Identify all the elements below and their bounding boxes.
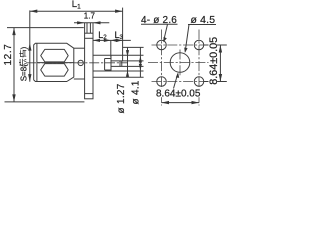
wire dim L3 left extension [110, 40, 112, 57]
label S=8 hex [19, 46, 28, 81]
node mounting hole bottom right [194, 77, 204, 87]
wire dim L2 L3 line [93, 39, 131, 41]
svg-text:ø 1.27: ø 1.27 [116, 83, 127, 113]
wire underline 4-phi2.6 [141, 23, 178, 25]
svg-text:4- ø 2.6: 4- ø 2.6 [141, 15, 177, 26]
wire dim 12.7 extension top [7, 27, 84, 29]
wire centerline middle vertical [179, 50, 181, 77]
wire centerline column right [198, 30, 200, 106]
wire dim 8.64 bottom line [162, 102, 200, 104]
wire dim 12.7 extension bottom [5, 101, 85, 103]
wire dim 12.7 line [13, 28, 15, 102]
leader arrowheads [163, 37, 167, 42]
node barrel body [74, 47, 85, 49]
wire centerline of connector side view [26, 62, 128, 64]
node flange inner line bottom [85, 93, 93, 95]
L3 arrows [111, 39, 118, 42]
8.64 right arrows [219, 45, 222, 53]
svg-text:8.64±0.05: 8.64±0.05 [208, 37, 220, 85]
CJK glyph liu [19, 50, 26, 66]
node mounting hole bottom left [157, 77, 167, 87]
L2 arrows [93, 39, 100, 42]
wire leader 4-phi2.6 [164, 24, 168, 41]
node dielectric cylinder [93, 54, 144, 56]
wire leader phi4.5 [185, 25, 189, 52]
wire dim 1.7 line [74, 22, 109, 24]
wire dim phi1.27 vertical line [139, 47, 141, 77]
wire dim S line with L1 left extension [29, 10, 31, 81]
node hex corner line [37, 62, 74, 64]
node hex coupling nut outline with chamfered back corners [34, 43, 74, 81]
wire centerline column left [161, 30, 163, 106]
wire centerline row bottom [152, 81, 209, 83]
node hex upper facet lozenge [41, 49, 68, 62]
wire dim 8.64 right line [219, 45, 221, 82]
12.7 arrows [12, 28, 15, 35]
node contact support step [105, 58, 111, 60]
wire centerline middle horizontal [148, 62, 213, 64]
wire phi dim shelf top [123, 46, 144, 48]
wire underline phi4.5 [188, 24, 216, 26]
1.7 arrows outside [77, 21, 85, 24]
node nut front rim line [36, 43, 38, 81]
wire dim 8.64 right extension bottom [204, 81, 227, 83]
L1 arrows [30, 10, 38, 13]
node mounting hole top right [194, 40, 204, 50]
svg-text:12.7: 12.7 [3, 44, 14, 66]
node center hole phi4.5 [170, 53, 190, 73]
wire phi dim shelf bottom [93, 76, 144, 78]
node flange plate side view [85, 33, 93, 99]
wire dim 8.64 right extension top [204, 44, 227, 46]
svg-text:1.7: 1.7 [84, 11, 96, 20]
node solder hole circle [78, 60, 83, 65]
wire dim phi4.1 vertical line [127, 47, 129, 77]
svg-text:): ) [19, 46, 28, 49]
label 8.64 bottom [156, 89, 201, 97]
wire dim L1 right extension [122, 8, 124, 61]
right flange face view [148, 30, 213, 106]
svg-text:8.64±0.05: 8.64±0.05 [156, 89, 201, 100]
phi1.27 arrows [139, 56, 142, 63]
node flange inner line top [85, 37, 93, 39]
S=8 arrows [28, 43, 31, 51]
dimension arrowheads [12, 10, 142, 102]
label 8.64 right [209, 35, 218, 84]
node center pin [111, 60, 144, 62]
wire leader center circle bottom [174, 74, 178, 89]
wire dim 1.7 extensions [84, 23, 86, 33]
node hex lower facet lozenge [41, 64, 68, 77]
wire dim L1 line [30, 10, 123, 12]
wire centerline row top [152, 44, 209, 46]
phi4.1 arrows [126, 50, 129, 57]
svg-text:ø 4.5: ø 4.5 [191, 15, 216, 26]
svg-text:S=8(: S=8( [19, 64, 28, 81]
8.64 bottom arrows [162, 101, 170, 104]
svg-text:ø 4.1: ø 4.1 [131, 80, 142, 104]
node mounting hole top left [157, 40, 167, 50]
